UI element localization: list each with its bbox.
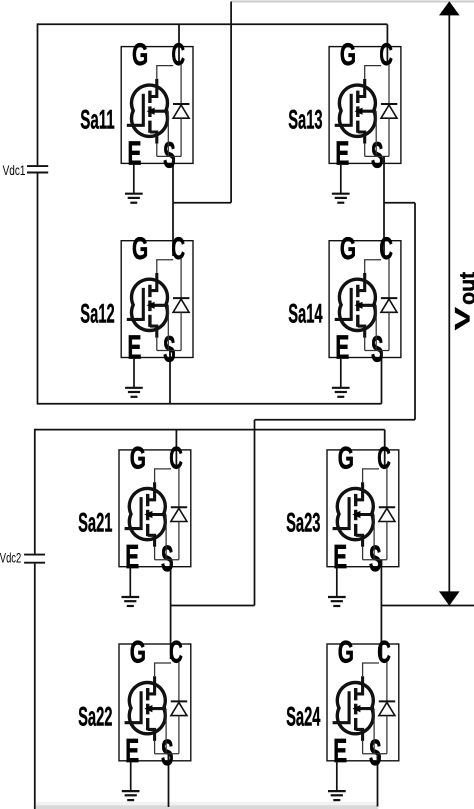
S terminal wire inside module (Sa24)	[377, 754, 379, 761]
pin label C (Sa23)	[377, 439, 391, 475]
pin label S (Sa21)	[161, 538, 174, 579]
thin source drop wire (Sa21)	[154, 547, 156, 560]
S terminal wire inside module (Sa12)	[169, 351, 171, 358]
IGBT/MOSFET envelope (union of two circles) (Sa12)	[132, 279, 168, 330]
thin wire from C terminal to drain (Sa23)	[363, 469, 379, 482]
IGBT/MOSFET envelope (union of two circles) (Sa14)	[339, 279, 375, 330]
svg-text:Sa22: Sa22	[78, 702, 112, 732]
cascade riser down to bridge2 left midpoint	[254, 420, 256, 606]
thin wire from C terminal to drain (Sa22)	[155, 663, 171, 676]
IGBT/MOSFET envelope (union of two circles) (Sa13)	[339, 85, 375, 136]
E terminal wire (Sa23)	[336, 567, 338, 597]
source tie bar (Sa23)	[363, 559, 387, 561]
channel bar segments (Sa24)	[354, 688, 357, 730]
wire Sa11 S down to node A	[172, 156, 174, 202]
S terminal wire inside module (Sa22)	[168, 754, 170, 761]
label Vout (rotated)	[449, 271, 474, 330]
wire Vdc2- down left rail to crop edge	[34, 564, 36, 809]
source tie bar (Sa22)	[155, 753, 179, 755]
thin wire body to source tie (Sa24)	[373, 709, 375, 754]
E terminal wire (Sa14)	[340, 358, 342, 388]
wire Sa13 C to rail	[386, 24, 388, 62]
svg-text:Sa21: Sa21	[78, 508, 112, 538]
svg-text:Sa14: Sa14	[288, 298, 322, 328]
pin label G (Sa12)	[132, 230, 148, 266]
anti-parallel diode (Sa14)	[381, 258, 397, 350]
wire Sa11 C to rail	[178, 24, 180, 62]
source (emitter) lead (Sa24)	[356, 729, 363, 741]
ground symbol (Sa11)	[125, 194, 143, 203]
thin wire body to source tie (Sa12)	[167, 305, 169, 350]
pin label S (Sa22)	[161, 732, 174, 773]
svg-text:Vdc1: Vdc1	[3, 163, 26, 179]
pin label G (Sa11)	[132, 36, 148, 72]
wire Sa23 S down to node D2 and Sa24 C	[380, 560, 382, 659]
svg-text:Sa12: Sa12	[80, 298, 114, 328]
collector (drain) lead (Sa13)	[358, 79, 365, 97]
thin wire body to source tie (Sa21)	[165, 515, 167, 560]
svg-text:G: G	[132, 230, 148, 266]
IGBT/MOSFET envelope (union of two circles) (Sa11)	[132, 85, 168, 136]
wire Sa24 S down to crop edge	[377, 754, 379, 807]
collector (drain) lead (Sa11)	[150, 79, 157, 97]
E terminal wire (Sa11)	[133, 163, 135, 193]
thin wire body to source tie (Sa13)	[375, 111, 377, 156]
module box Sa11	[121, 47, 193, 164]
switch module Sa12	[121, 230, 193, 397]
pin label C (Sa14)	[379, 230, 393, 266]
E terminal wire (Sa24)	[336, 761, 338, 791]
IGBT/MOSFET envelope (union of two circles) (Sa24)	[337, 682, 373, 733]
svg-text:G: G	[132, 36, 148, 72]
pin label E (Sa22)	[125, 733, 139, 770]
ground symbol (Sa22)	[122, 791, 140, 800]
label Sa24	[286, 702, 320, 732]
body line with arrow (Sa22)	[148, 707, 166, 710]
source (emitter) lead (Sa22)	[148, 729, 155, 741]
gate lead and gate bar (Sa23)	[333, 497, 350, 530]
pin label C (Sa22)	[169, 634, 183, 670]
pin label G (Sa13)	[340, 36, 356, 72]
body arrowhead (Sa24)	[352, 705, 360, 712]
gate lead and gate bar (Sa13)	[335, 94, 352, 127]
module box Sa12	[121, 241, 193, 358]
cascade wire horizontal to bridge2	[255, 419, 416, 421]
label Sa12	[80, 298, 114, 328]
pin label G (Sa22)	[130, 634, 146, 670]
collector (drain) lead (Sa24)	[356, 676, 363, 694]
Vdc2 positive rail wire (bridge2)	[35, 429, 385, 431]
S terminal wire inside module (Sa23)	[380, 560, 382, 567]
svg-text:S: S	[369, 538, 382, 579]
anti-parallel diode (Sa22)	[171, 662, 187, 754]
pin label G (Sa23)	[338, 439, 354, 475]
channel bar segments (Sa14)	[356, 285, 359, 327]
svg-text:C: C	[169, 634, 183, 670]
anti-parallel diode (Sa21)	[171, 467, 187, 559]
module box Sa23	[327, 450, 399, 567]
wire node C2 down to Sa22 C	[170, 606, 172, 660]
switch module Sa11	[121, 36, 193, 203]
svg-text:G: G	[130, 439, 146, 475]
switch module Sa13	[329, 36, 401, 203]
module box Sa13	[329, 47, 401, 164]
anti-parallel diode (Sa11)	[173, 64, 189, 156]
thin source drop wire (Sa23)	[362, 547, 364, 560]
bridge1 bottom wire (Vdc1- to Sa12/Sa14 S)	[37, 403, 382, 405]
body arrowhead (Sa13)	[355, 108, 363, 115]
output node wire (gray, top)	[231, 1, 474, 3]
thin wire from C terminal to drain (Sa13)	[365, 66, 381, 79]
pin label S (Sa12)	[163, 329, 176, 370]
label Sa13	[288, 104, 322, 134]
collector (drain) lead (Sa14)	[358, 273, 365, 291]
switch module Sa23	[327, 439, 399, 606]
thin source drop wire (Sa22)	[154, 741, 156, 754]
module box Sa22	[119, 644, 191, 761]
switch module Sa21	[119, 439, 191, 606]
node D2 wire to Vout bottom terminal	[381, 605, 474, 607]
svg-text:S: S	[161, 538, 174, 579]
collector (drain) lead (Sa22)	[148, 676, 155, 694]
gate lead and gate bar (Sa24)	[333, 691, 350, 724]
thin wire from C terminal to drain (Sa21)	[155, 469, 171, 482]
wire Sa23 C to rail2	[384, 430, 386, 465]
svg-text:C: C	[377, 439, 391, 475]
switch module Sa14	[329, 230, 401, 397]
pin label G (Sa14)	[340, 230, 356, 266]
svg-text:C: C	[171, 230, 185, 266]
thin wire from C terminal to drain (Sa11)	[157, 66, 173, 79]
pin label S (Sa24)	[369, 732, 382, 773]
pin label G (Sa24)	[338, 634, 354, 670]
source (emitter) lead (Sa14)	[358, 326, 365, 338]
pin label E (Sa14)	[335, 330, 349, 367]
body line with arrow (Sa21)	[148, 513, 166, 516]
svg-text:C: C	[379, 230, 393, 266]
svg-text:S: S	[161, 732, 174, 773]
source tie bar (Sa13)	[365, 155, 389, 157]
body line with arrow (Sa24)	[356, 707, 374, 710]
wire Vdc2+ to rail (left vertical, upper)	[34, 429, 36, 554]
capacitor Vdc1	[27, 166, 48, 172]
output riser wire (node A to top gray output line)	[230, 2, 232, 203]
anti-parallel diode (Sa13)	[381, 64, 397, 156]
wire Sa12 S to bridge1 bottom wire	[169, 351, 171, 404]
pin label E (Sa24)	[333, 733, 347, 770]
wire Sa22 S down to crop edge	[168, 754, 170, 807]
anti-parallel diode (Sa24)	[379, 662, 395, 754]
body arrowhead (Sa22)	[144, 705, 152, 712]
crop edge band (gray, bottom)	[36, 802, 378, 805]
svg-text:S: S	[371, 135, 384, 176]
node A horizontal wire (Sa11 S to output riser)	[173, 202, 231, 204]
source tie bar (Sa21)	[155, 559, 179, 561]
thin wire body to source tie (Sa23)	[373, 515, 375, 560]
pin label S (Sa11)	[163, 135, 176, 176]
pin label E (Sa13)	[335, 136, 349, 173]
gate lead and gate bar (Sa22)	[125, 691, 142, 724]
source tie bar (Sa11)	[157, 155, 181, 157]
S terminal wire inside module (Sa11)	[172, 156, 174, 163]
cascade wire down right side of bridge1	[414, 203, 416, 420]
svg-text:Sa11: Sa11	[80, 104, 114, 134]
wire Sa14 S to bridge1 bottom wire	[381, 351, 383, 404]
IGBT/MOSFET envelope (union of two circles) (Sa23)	[337, 488, 373, 539]
pin label S (Sa13)	[371, 135, 384, 176]
channel bar segments (Sa13)	[356, 91, 359, 133]
svg-text:Sa23: Sa23	[286, 508, 320, 538]
label Sa11	[80, 104, 114, 134]
svg-text:C: C	[377, 634, 391, 670]
svg-text:C: C	[169, 439, 183, 475]
thin wire body to source tie (Sa22)	[165, 709, 167, 754]
svg-text:E: E	[335, 330, 349, 367]
channel bar segments (Sa22)	[146, 688, 149, 730]
wire node A down to Sa12 C	[172, 203, 174, 256]
ground symbol (Sa24)	[328, 791, 346, 800]
svg-text:E: E	[125, 539, 139, 576]
switch module Sa22	[119, 634, 191, 801]
E terminal wire (Sa21)	[129, 567, 131, 597]
Vdc1 positive rail wire	[38, 23, 388, 25]
IGBT/MOSFET envelope (union of two circles) (Sa21)	[129, 488, 165, 539]
Vout measurement line	[448, 15, 450, 592]
svg-text:G: G	[338, 634, 354, 670]
anti-parallel diode (Sa12)	[173, 258, 189, 350]
thin wire from C terminal to drain (Sa12)	[157, 260, 173, 273]
source (emitter) lead (Sa13)	[358, 132, 365, 144]
thin wire from C terminal to drain (Sa24)	[363, 663, 379, 676]
ground symbol (Sa23)	[328, 597, 346, 606]
label Sa23	[286, 508, 320, 538]
thin source drop wire (Sa14)	[364, 338, 366, 351]
thin wire body to source tie (Sa14)	[375, 305, 377, 350]
thin source drop wire (Sa24)	[362, 741, 364, 754]
ground symbol (Sa13)	[332, 194, 350, 203]
wire Vdc1- down left rail	[37, 173, 39, 403]
label Vdc2	[0, 550, 21, 566]
body arrowhead (Sa23)	[352, 511, 360, 518]
thin source drop wire (Sa11)	[156, 144, 158, 157]
Vout top arrowhead	[439, 1, 460, 15]
label Sa14	[288, 298, 322, 328]
node B horizontal wire (Sa13 S to cascade riser)	[384, 202, 415, 204]
thin wire body to source tie (Sa11)	[167, 111, 169, 156]
svg-text:E: E	[333, 733, 347, 770]
wire Sa21 S down to node C2	[170, 560, 172, 606]
wire Vdc1+ to rail (left vertical, upper)	[37, 23, 39, 165]
ground symbol (Sa21)	[122, 597, 140, 606]
collector (drain) lead (Sa12)	[150, 273, 157, 291]
body line with arrow (Sa23)	[356, 513, 374, 516]
svg-text:Sa13: Sa13	[288, 104, 322, 134]
wire Sa21 C to rail2	[175, 430, 177, 465]
body line with arrow (Sa11)	[150, 110, 168, 113]
body arrowhead (Sa11)	[147, 108, 155, 115]
pin label C (Sa11)	[171, 36, 185, 72]
pin label C (Sa21)	[169, 439, 183, 475]
channel bar segments (Sa23)	[354, 494, 357, 536]
wire Sa13 S down to node B and Sa14 C	[383, 156, 385, 256]
channel bar segments (Sa11)	[148, 91, 151, 133]
svg-text:G: G	[130, 634, 146, 670]
svg-text:E: E	[333, 539, 347, 576]
S terminal wire inside module (Sa14)	[381, 351, 383, 358]
gate lead and gate bar (Sa12)	[127, 288, 144, 321]
svg-text:S: S	[163, 329, 176, 370]
node C2 horizontal wire (Sa21 S to cascade riser)	[171, 605, 255, 607]
svg-text:E: E	[125, 733, 139, 770]
label Sa22	[78, 702, 112, 732]
body line with arrow (Sa13)	[358, 110, 376, 113]
channel bar segments (Sa12)	[148, 285, 151, 327]
IGBT/MOSFET envelope (union of two circles) (Sa22)	[129, 682, 165, 733]
ground symbol (Sa12)	[125, 388, 143, 397]
E terminal wire (Sa12)	[133, 358, 135, 388]
pin label S (Sa23)	[369, 538, 382, 579]
svg-text:G: G	[338, 439, 354, 475]
svg-text:S: S	[369, 732, 382, 773]
capacitor Vdc2	[24, 555, 45, 563]
thin wire from C terminal to drain (Sa14)	[365, 260, 381, 273]
source (emitter) lead (Sa11)	[150, 132, 157, 144]
body arrowhead (Sa14)	[355, 302, 363, 309]
svg-text:V: V	[449, 307, 474, 330]
collector (drain) lead (Sa21)	[148, 482, 155, 500]
body arrowhead (Sa21)	[144, 511, 152, 518]
pin label E (Sa11)	[127, 136, 141, 173]
ground symbol (Sa14)	[332, 388, 350, 397]
E terminal wire (Sa13)	[340, 163, 342, 193]
pin label E (Sa21)	[125, 539, 139, 576]
body line with arrow (Sa12)	[150, 304, 168, 307]
svg-text:S: S	[371, 329, 384, 370]
body arrowhead (Sa12)	[147, 302, 155, 309]
anti-parallel diode (Sa23)	[379, 467, 395, 559]
pin label E (Sa12)	[127, 330, 141, 367]
source tie bar (Sa24)	[363, 753, 387, 755]
body line with arrow (Sa14)	[358, 304, 376, 307]
source tie bar (Sa12)	[157, 350, 181, 352]
pin label C (Sa13)	[379, 36, 393, 72]
Vout bottom arrowhead	[439, 591, 460, 605]
label Sa21	[78, 508, 112, 538]
pin label G (Sa21)	[130, 439, 146, 475]
collector (drain) lead (Sa23)	[356, 482, 363, 500]
S terminal wire inside module (Sa13)	[383, 156, 385, 163]
module box Sa24	[327, 644, 399, 761]
thin source drop wire (Sa12)	[156, 338, 158, 351]
channel bar segments (Sa21)	[146, 494, 149, 536]
module box Sa14	[329, 241, 401, 358]
thin source drop wire (Sa13)	[364, 144, 366, 157]
E terminal wire (Sa22)	[130, 761, 132, 791]
pin label S (Sa14)	[371, 329, 384, 370]
switch module Sa24	[327, 634, 399, 801]
label Vdc1	[3, 163, 26, 179]
svg-text:C: C	[171, 36, 185, 72]
svg-text:G: G	[340, 36, 356, 72]
svg-text:G: G	[340, 230, 356, 266]
module box Sa21	[119, 450, 191, 567]
gate lead and gate bar (Sa11)	[127, 94, 144, 127]
svg-text:out: out	[455, 271, 474, 304]
svg-text:C: C	[379, 36, 393, 72]
gate lead and gate bar (Sa21)	[125, 497, 142, 530]
svg-text:Vdc2: Vdc2	[0, 550, 21, 566]
svg-text:S: S	[163, 135, 176, 176]
S terminal wire inside module (Sa21)	[170, 560, 172, 567]
svg-text:E: E	[335, 136, 349, 173]
gate lead and gate bar (Sa14)	[335, 288, 352, 321]
source (emitter) lead (Sa23)	[356, 535, 363, 547]
source (emitter) lead (Sa21)	[148, 535, 155, 547]
source (emitter) lead (Sa12)	[150, 326, 157, 338]
pin label C (Sa12)	[171, 230, 185, 266]
svg-text:Sa24: Sa24	[286, 702, 320, 732]
source tie bar (Sa14)	[365, 350, 389, 352]
pin label C (Sa24)	[377, 634, 391, 670]
pin label E (Sa23)	[333, 539, 347, 576]
